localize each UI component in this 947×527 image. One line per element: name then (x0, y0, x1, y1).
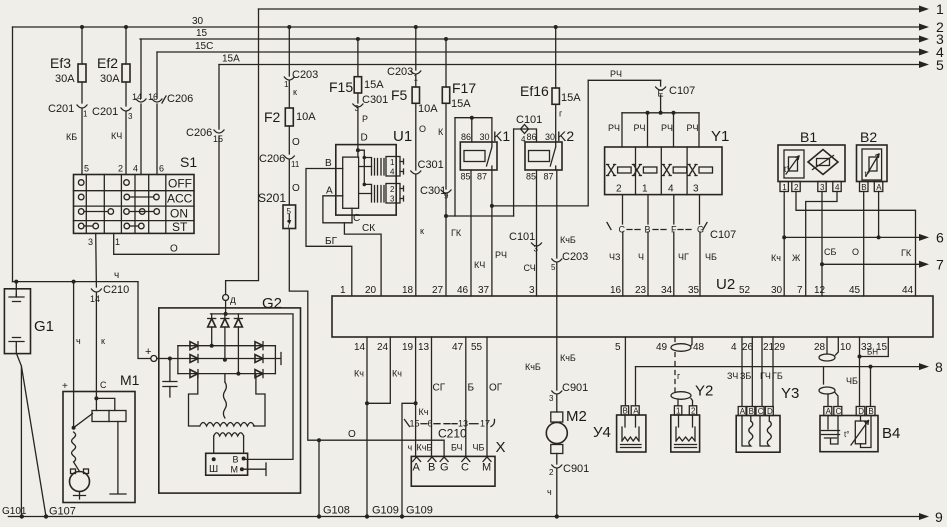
wire line 8 to dashboard (636, 359, 944, 375)
svg-text:ГК: ГК (901, 248, 912, 258)
svg-text:30A: 30A (100, 73, 120, 85)
svg-text:3: 3 (820, 183, 825, 192)
svg-text:C: C (758, 407, 764, 416)
svg-text:C210: C210 (103, 284, 129, 296)
stator winding right leg (254, 374, 266, 426)
svg-text:ЧБ: ЧБ (705, 252, 717, 262)
svg-text:М: М (231, 465, 239, 475)
coolant temp sensor B2 (857, 129, 888, 182)
svg-text:КБ: КБ (66, 132, 77, 142)
svg-text:C203: C203 (562, 251, 588, 263)
wire KCh label (111, 131, 122, 141)
fuse F2 (264, 108, 316, 154)
svg-text:A: A (826, 407, 832, 416)
svg-text:C206: C206 (186, 127, 212, 139)
svg-text:37: 37 (478, 285, 490, 296)
alternator G2 frame (159, 295, 301, 493)
ground G109 b (400, 505, 433, 519)
svg-text:46: 46 (457, 285, 469, 296)
svg-text:КчБ: КчБ (560, 353, 576, 363)
svg-text:11: 11 (291, 160, 300, 169)
svg-text:28: 28 (814, 342, 826, 353)
svg-text:РЧ: РЧ (634, 123, 646, 133)
injector symbol cell 1 (607, 165, 632, 176)
svg-text:Ef16: Ef16 (520, 83, 549, 99)
svg-text:РЧ: РЧ (495, 250, 507, 260)
svg-text:G1: G1 (34, 318, 54, 335)
svg-text:2: 2 (118, 164, 123, 174)
diagnostic connector X (411, 439, 505, 486)
svg-text:19: 19 (402, 342, 414, 353)
ignition coils unit Y3 (736, 385, 799, 452)
svg-text:G107: G107 (49, 506, 76, 518)
svg-text:Y3: Y3 (781, 385, 799, 402)
svg-text:10: 10 (840, 342, 852, 353)
ignition coil 2 inside U1 (372, 184, 404, 204)
capacitor on B plus (163, 359, 177, 398)
svg-text:C301: C301 (362, 94, 388, 106)
svg-text:15: 15 (410, 419, 420, 429)
svg-text:86: 86 (461, 132, 471, 142)
svg-text:6: 6 (936, 230, 944, 246)
svg-text:РЧ: РЧ (610, 69, 622, 79)
svg-text:C901: C901 (562, 382, 588, 394)
connector C901 pin 2 (547, 463, 589, 517)
svg-text:C107: C107 (669, 85, 695, 97)
svg-text:M2: M2 (566, 408, 587, 425)
svg-text:86: 86 (527, 132, 537, 142)
svg-text:C: C (836, 407, 842, 416)
auxiliary diode 3 (234, 314, 242, 376)
svg-text:А: А (413, 462, 421, 474)
svg-text:О: О (419, 124, 426, 134)
svg-text:+: + (145, 346, 151, 358)
svg-text:23: 23 (635, 285, 647, 296)
wire injector rail RCh (492, 69, 661, 206)
wire battery negative to grounds G101 G107 (17, 354, 47, 517)
wire U2 pin 19 to X pin A and ground G109 (402, 337, 429, 517)
svg-text:ACC: ACC (167, 192, 193, 206)
svg-text:1: 1 (284, 80, 289, 89)
svg-text:ЧБ: ЧБ (846, 376, 858, 386)
svg-text:СБ: СБ (824, 247, 836, 257)
connector C901 pin 3 (549, 382, 588, 412)
svg-text:17: 17 (480, 419, 490, 429)
injector symbol cell 3 (662, 165, 687, 176)
svg-text:5: 5 (936, 57, 944, 73)
stator winding left leg (189, 374, 200, 426)
svg-text:27: 27 (432, 285, 444, 296)
wire color labels below C210 (408, 443, 485, 453)
svg-text:Ef2: Ef2 (97, 55, 118, 71)
connector C107 pin E (656, 80, 696, 113)
svg-text:7: 7 (936, 257, 944, 273)
svg-text:20: 20 (365, 285, 377, 296)
wire KB label (66, 132, 77, 142)
wire B1 pin 2 to U2 pin 44 (796, 192, 916, 297)
wire K1 pin 85 to U2 pin 46 (471, 170, 485, 296)
svg-text:U2: U2 (716, 276, 735, 293)
svg-text:34: 34 (661, 285, 673, 296)
svg-text:C101: C101 (516, 114, 542, 126)
connector C206 pin 15 (186, 65, 224, 145)
wire to starter plus (73, 282, 75, 392)
svg-text:2: 2 (794, 183, 799, 192)
wire S201 down to X connector pin G (289, 229, 444, 458)
svg-text:Кч: Кч (354, 369, 364, 379)
svg-text:ST: ST (172, 220, 188, 234)
svg-text:Ж: Ж (792, 253, 801, 263)
connector ovals on B4 circuit (819, 337, 838, 407)
ECU U2 box (332, 276, 933, 337)
svg-text:ГК: ГК (451, 228, 462, 238)
svg-text:B: B (868, 407, 873, 416)
svg-text:X: X (496, 439, 506, 456)
svg-text:13: 13 (418, 342, 430, 353)
svg-text:30: 30 (192, 16, 204, 27)
svg-text:G109: G109 (372, 505, 399, 517)
svg-text:КчБ: КчБ (560, 235, 576, 245)
svg-text:к: к (420, 226, 424, 236)
svg-text:29: 29 (774, 342, 786, 353)
wire to alternator B plus (138, 282, 151, 359)
wire U2 pin 13 to X pin B (432, 337, 446, 457)
svg-text:F17: F17 (452, 80, 476, 96)
wire U1 pin B to U2 pin 1 (306, 158, 352, 296)
svg-text:15: 15 (196, 28, 208, 39)
svg-text:5: 5 (84, 164, 89, 174)
ground G101 (2, 506, 27, 519)
svg-text:КЧ: КЧ (111, 131, 122, 141)
svg-text:30A: 30A (55, 73, 75, 85)
svg-text:Б: Б (468, 383, 475, 394)
svg-text:D: D (767, 407, 773, 416)
svg-text:2: 2 (390, 185, 395, 194)
rectifier diodes left column (190, 342, 198, 378)
svg-text:к: к (101, 336, 105, 346)
svg-text:85: 85 (526, 172, 536, 182)
svg-text:15A: 15A (451, 98, 471, 110)
svg-text:B: B (749, 407, 754, 416)
svg-text:12: 12 (814, 285, 826, 296)
svg-text:52: 52 (739, 285, 751, 296)
connector ovals on Y2 circuit (671, 337, 693, 406)
svg-text:ч: ч (408, 443, 413, 453)
svg-text:+: + (62, 381, 68, 392)
svg-text:C203: C203 (292, 69, 318, 81)
svg-text:В: В (325, 158, 332, 169)
svg-text:10A: 10A (418, 103, 438, 115)
svg-text:2: 2 (549, 468, 554, 477)
svg-text:M1: M1 (120, 372, 140, 388)
svg-text:3: 3 (390, 195, 395, 204)
svg-text:Ef3: Ef3 (50, 55, 71, 71)
svg-text:ON: ON (170, 206, 188, 220)
svg-text:ЧГ: ЧГ (678, 252, 689, 262)
svg-text:3: 3 (355, 104, 360, 113)
wire battery positive rail ch (13, 270, 139, 284)
svg-text:6: 6 (159, 164, 164, 174)
svg-text:45: 45 (849, 285, 861, 296)
oxygen sensor B4 (820, 407, 900, 452)
connector C201 pin 3 (92, 106, 133, 175)
injector supply rail with RCh labels (608, 111, 699, 147)
svg-text:ч: ч (547, 487, 552, 497)
svg-text:1: 1 (390, 158, 395, 167)
connector row C107 pins C B F G (607, 223, 736, 242)
svg-text:4: 4 (668, 184, 674, 195)
wire line 8 to B4 pin B (869, 365, 873, 407)
rectifier diodes right column (255, 342, 263, 378)
wire K2 pin 87 fuel pump feed (551, 170, 588, 272)
air flow sensor B1 (778, 129, 845, 182)
svg-text:7: 7 (797, 285, 803, 296)
svg-text:3: 3 (529, 285, 535, 296)
connector C206 pins 14 16 (132, 39, 193, 175)
connector C210 pin 14 (90, 284, 129, 392)
svg-text:3: 3 (128, 112, 133, 121)
svg-text:49: 49 (656, 342, 668, 353)
battery G1 (4, 282, 54, 354)
wire Y4 pin A starting line 8 (635, 367, 637, 406)
svg-text:СГ: СГ (433, 383, 446, 394)
node junction dots on buses (80, 25, 558, 41)
fuse Ef16 (520, 27, 581, 142)
svg-text:Y1: Y1 (711, 128, 729, 145)
svg-text:t°: t° (784, 165, 789, 174)
svg-text:C210: C210 (438, 427, 467, 441)
B1 pin boxes 1 2 3 4 (780, 182, 841, 192)
stator winding center coil (223, 374, 226, 418)
fuse F17 (438, 39, 476, 189)
svg-text:14: 14 (90, 294, 100, 304)
svg-text:G101: G101 (2, 506, 27, 517)
relay K2 (525, 128, 574, 182)
svg-text:д: д (230, 295, 236, 306)
fuel pump feed wire through to M2 (525, 263, 576, 390)
svg-text:А: А (876, 183, 882, 192)
wire M brush to case (242, 463, 266, 476)
fuse F5 (387, 27, 438, 134)
svg-text:БН: БН (867, 348, 878, 357)
ignition module U1 box (336, 128, 412, 215)
svg-text:B1: B1 (800, 129, 817, 145)
svg-text:Кч: Кч (392, 369, 402, 379)
svg-text:C201: C201 (48, 103, 74, 115)
svg-text:СЧ: СЧ (524, 263, 536, 273)
svg-text:B: B (428, 462, 435, 474)
svg-text:F5: F5 (391, 87, 408, 103)
svg-text:4: 4 (133, 164, 138, 174)
ground G107 (44, 506, 76, 519)
svg-text:10A: 10A (296, 111, 316, 123)
wire K2 pin 85 to U2 pin 3 (509, 170, 542, 296)
svg-text:44: 44 (902, 285, 914, 296)
svg-text:4: 4 (390, 168, 395, 177)
svg-text:5: 5 (615, 342, 621, 353)
stator winding horizontal (200, 423, 255, 427)
svg-text:1: 1 (936, 1, 944, 17)
connector C201 pin 1 (48, 103, 88, 175)
wire U1 pin A and C to U2 pin 20 (323, 186, 381, 297)
svg-text:С: С (353, 213, 360, 224)
svg-text:A: A (740, 407, 746, 416)
terminal D of alternator (223, 295, 236, 316)
svg-text:ч: ч (76, 336, 81, 346)
connector C206 pin 11 (259, 153, 300, 205)
svg-text:87: 87 (477, 172, 487, 182)
svg-text:к: к (293, 87, 297, 97)
svg-text:А: А (326, 186, 333, 197)
svg-text:t°: t° (844, 430, 849, 439)
svg-text:G109: G109 (406, 505, 433, 517)
ignition coil 1 inside U1 (372, 157, 404, 177)
wire U2 pin 5 to Y4 (624, 337, 626, 406)
wire S1 pin 3 down (95, 233, 98, 287)
svg-text:15A: 15A (222, 54, 240, 65)
svg-text:РЧ: РЧ (608, 123, 620, 133)
wire B1 pin 4 to U2 pin 7 (792, 192, 837, 297)
connector C301 pin 9 (420, 185, 462, 296)
wire K1 pin 87 injector feed to U2 pin 37 (490, 170, 507, 296)
wire to B4 pin D (846, 357, 860, 407)
svg-text:C101: C101 (509, 231, 535, 243)
svg-text:К: К (438, 127, 444, 137)
wire U2 pins 33 15 join (858, 337, 889, 359)
svg-text:Р: Р (362, 114, 368, 124)
svg-text:48: 48 (693, 342, 705, 353)
svg-text:30: 30 (545, 132, 555, 142)
wire bus 15 (140, 28, 944, 47)
svg-text:3: 3 (549, 394, 554, 403)
ground rail line 9 (8, 509, 943, 525)
svg-text:G: G (440, 462, 449, 474)
svg-text:C301: C301 (418, 159, 444, 171)
svg-text:Y2: Y2 (695, 383, 713, 400)
svg-text:О: О (292, 137, 300, 148)
svg-text:15A: 15A (561, 92, 581, 104)
svg-text:9: 9 (935, 509, 943, 525)
svg-text:87: 87 (544, 172, 554, 182)
svg-text:15A: 15A (364, 79, 384, 91)
svg-text:8: 8 (935, 359, 943, 375)
ground G108 (317, 505, 350, 519)
svg-text:С: С (100, 380, 107, 390)
rectifier case bar (275, 353, 281, 365)
connector C301 on F5 wire (411, 103, 444, 296)
svg-text:3: 3 (693, 184, 699, 195)
svg-text:M: M (482, 462, 491, 474)
svg-text:U1: U1 (393, 128, 412, 145)
svg-text:t°: t° (865, 170, 870, 179)
connector C203 pin 1 on F2 feed (284, 27, 318, 108)
rotor field winding (214, 433, 244, 454)
svg-text:КчБ: КчБ (525, 362, 541, 372)
wire bus 15A (219, 54, 944, 74)
idle control valve Y4 (593, 406, 646, 452)
relay K1 (460, 118, 510, 182)
svg-text:D: D (858, 407, 864, 416)
svg-text:БЧ: БЧ (451, 443, 463, 453)
svg-text:16: 16 (610, 285, 622, 296)
svg-text:47: 47 (452, 342, 464, 353)
svg-text:30: 30 (480, 132, 490, 142)
svg-text:16: 16 (148, 92, 158, 102)
wire branch to ground G108 (317, 438, 321, 516)
svg-text:D: D (361, 133, 368, 144)
svg-text:Кч: Кч (771, 253, 781, 263)
rectifier phase rails (170, 346, 276, 374)
svg-text:О: О (852, 247, 859, 257)
svg-text:K1: K1 (493, 128, 510, 144)
svg-text:B2: B2 (860, 129, 877, 145)
svg-text:У4: У4 (593, 424, 611, 441)
wire S1 pin 1 to C206 pin 15 and bus 15A (114, 136, 219, 255)
svg-text:F15: F15 (329, 79, 353, 95)
svg-text:1: 1 (83, 110, 88, 119)
svg-text:30: 30 (771, 285, 783, 296)
svg-text:ЧЗ: ЧЗ (609, 252, 620, 262)
svg-text:2: 2 (616, 184, 622, 195)
svg-text:C206: C206 (167, 93, 193, 105)
svg-text:14: 14 (132, 92, 142, 102)
svg-text:5: 5 (551, 263, 556, 272)
svg-text:C203: C203 (387, 66, 413, 78)
fuse Ef3 (50, 27, 86, 103)
svg-text:G108: G108 (323, 505, 350, 517)
connector C101 pin 4 (514, 114, 543, 216)
starter M1 (62, 372, 140, 503)
wire bus line 1 to dashboard (259, 1, 945, 17)
U2 top pin numbers (340, 285, 914, 296)
svg-text:35: 35 (688, 285, 700, 296)
svg-text:РЧ: РЧ (687, 123, 699, 133)
svg-text:1: 1 (782, 183, 787, 192)
svg-text:4: 4 (731, 342, 737, 353)
injector symbol cell 4 (688, 165, 713, 176)
auxiliary diode 1 (208, 314, 216, 348)
svg-text:О: О (292, 183, 300, 194)
svg-text:3: 3 (88, 237, 93, 247)
svg-text:СК: СК (362, 223, 375, 234)
svg-text:24: 24 (377, 342, 389, 353)
svg-text:C: C (461, 462, 469, 474)
svg-text:C201: C201 (92, 106, 118, 118)
svg-text:C107: C107 (710, 229, 736, 241)
connector C301 pin 3 (353, 94, 388, 145)
injector symbol cell 2 (632, 165, 657, 176)
diode unit S201 (258, 191, 296, 230)
brush assembly of G2 (206, 453, 248, 475)
svg-text:ЗЧ: ЗЧ (727, 371, 738, 381)
svg-text:S1: S1 (180, 154, 197, 170)
svg-text:В: В (233, 455, 239, 465)
wire B2 pin A to line 6 (877, 192, 881, 240)
svg-text:О: О (348, 429, 356, 440)
B2 pin boxes B A (860, 182, 883, 192)
svg-text:B4: B4 (882, 425, 900, 442)
svg-text:1: 1 (642, 184, 648, 195)
svg-text:K2: K2 (557, 128, 574, 144)
svg-text:G2: G2 (262, 295, 282, 312)
wires U2 to Y3 (727, 337, 783, 407)
svg-text:ЗБ: ЗБ (740, 371, 751, 381)
wire k label to starter (76, 336, 105, 346)
svg-text:Ш: Ш (209, 464, 218, 475)
ground M2 (555, 514, 559, 518)
svg-text:S201: S201 (258, 191, 286, 205)
svg-text:КчБ: КчБ (417, 443, 433, 453)
